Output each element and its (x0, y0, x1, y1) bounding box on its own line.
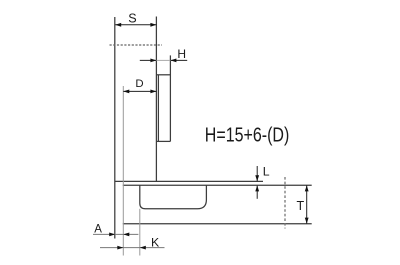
svg-text:L: L (263, 165, 270, 179)
svg-text:K: K (151, 236, 160, 250)
svg-text:H: H (177, 47, 186, 61)
svg-text:S: S (128, 12, 136, 26)
svg-text:D: D (135, 78, 143, 90)
svg-text:A: A (94, 223, 102, 235)
svg-text:H=15+6-(D): H=15+6-(D) (205, 124, 289, 146)
svg-text:T: T (297, 199, 305, 213)
